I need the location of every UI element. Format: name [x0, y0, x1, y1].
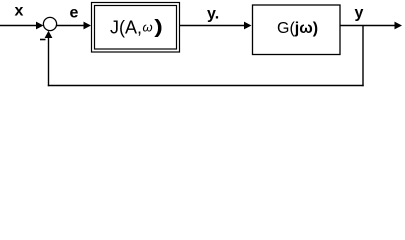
svg-text:J(A,: J(A, [110, 18, 142, 38]
svg-text:): ) [154, 16, 163, 37]
wire feedback bottom horizontal [48, 85, 364, 87]
wire linear block to output [341, 25, 396, 27]
arrowhead output [395, 22, 403, 30]
svg-text:e: e [70, 5, 79, 22]
nonlinear element block J(A,w) outer border [92, 3, 180, 53]
arrowhead into summing junction [36, 22, 44, 30]
minus sign on feedback input [40, 39, 46, 41]
svg-text:y.: y. [207, 6, 219, 23]
arrowhead into nonlinear block [84, 22, 92, 30]
svg-text:G(jω): G(jω) [277, 20, 318, 37]
wire feedback up to summing junction [48, 34, 50, 86]
wire nonlinear block to linear block [180, 25, 245, 27]
nonlinear element block J(A,w) inner border [95, 6, 177, 50]
wire input x to summing junction [0, 25, 37, 27]
linear block G(jw) [253, 5, 341, 55]
summing junction [43, 17, 56, 30]
wire summing junction to nonlinear block [57, 25, 85, 27]
wire feedback branch down [362, 26, 364, 87]
arrowhead into summing junction bottom [45, 31, 53, 38]
arrowhead into linear block [244, 22, 252, 30]
svg-text:x: x [15, 3, 24, 20]
svg-text:ω: ω [143, 20, 153, 35]
svg-text:y: y [355, 5, 364, 22]
